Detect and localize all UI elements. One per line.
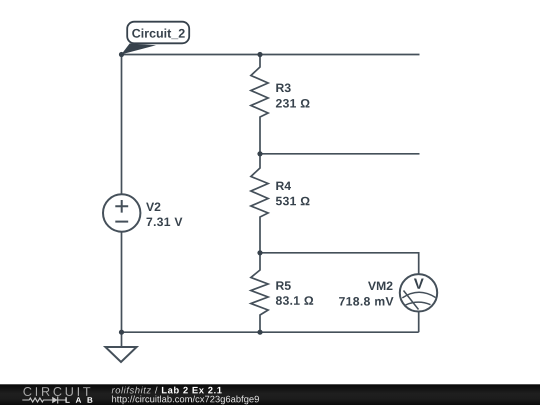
junction node top-left: [119, 52, 124, 57]
wire left vertical lower: [121, 232, 123, 333]
ground: [105, 332, 136, 362]
footer title rolifshitz / Lab 2 Ex 2.1: [112, 387, 151, 394]
footer url: [112, 396, 259, 405]
wire voltmeter bottom: [418, 312, 420, 333]
wire left vertical upper: [121, 55, 123, 195]
wire bottom horizontal: [122, 331, 419, 333]
label R4 value 531 ohm: [276, 182, 310, 206]
junction bottom-left: [119, 330, 124, 335]
wire top horizontal: [122, 54, 420, 56]
footer logo CIRCUIT: [23, 387, 90, 396]
node label Circuit_2: [122, 22, 190, 55]
footer bar: [0, 384, 540, 405]
footer logo schematic squiggle: [22, 397, 65, 404]
label R3 value 231 ohm: [276, 84, 310, 108]
wire third horizontal to voltmeter: [260, 253, 419, 274]
junction R3/R4: [257, 151, 262, 156]
junction R4/R5: [257, 250, 262, 255]
resistor R3: [251, 55, 268, 154]
junction R5 bottom: [257, 330, 262, 335]
wire middle horizontal: [260, 153, 420, 155]
label R5 value 83.1 ohm: [276, 281, 313, 304]
voltmeter VM2: [400, 274, 437, 311]
label V2 value 7.31 V: [146, 203, 182, 227]
label VM2 value 718.8 mV: [339, 282, 393, 306]
footer logo LAB: [66, 397, 93, 403]
resistor R4: [251, 154, 268, 253]
junction R3 top: [257, 52, 262, 57]
resistor R5: [251, 253, 268, 332]
voltage source V2: [103, 194, 140, 231]
